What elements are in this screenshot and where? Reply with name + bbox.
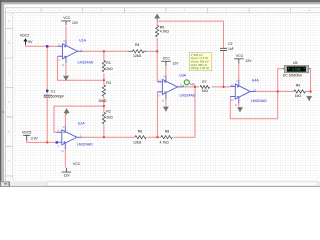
svg-text:2kΩ: 2kΩ <box>106 67 113 71</box>
ground arrow below U4A <box>237 107 243 112</box>
resistor R4 <box>128 43 147 58</box>
svg-text:12V: 12V <box>64 174 71 178</box>
wire VDC5 to U2A lower input <box>27 140 57 142</box>
svg-text:5V: 5V <box>28 40 33 44</box>
svg-text:R1: R1 <box>106 61 111 65</box>
svg-text:U5: U5 <box>293 61 298 65</box>
junction node R6 R8 <box>156 136 158 138</box>
resistor R6 <box>133 129 146 144</box>
resistor R9 <box>294 83 305 98</box>
resistor R5 <box>156 25 170 37</box>
capacitor C2 <box>220 42 234 51</box>
wire U4A output to R9 <box>256 90 311 92</box>
wire meter plus branch <box>278 69 285 92</box>
wire U1A pin4 to VCC <box>65 26 67 40</box>
svg-text:50000pF: 50000pF <box>51 95 64 99</box>
wire R3 leads <box>103 80 105 106</box>
resistor R2 <box>102 110 113 124</box>
svg-text:VDC2: VDC2 <box>20 33 29 37</box>
wire U2A pin4 to arrow <box>64 113 66 126</box>
junction node meter minus <box>310 90 312 92</box>
svg-text:12V: 12V <box>72 21 79 25</box>
op-amp U2A <box>57 122 93 153</box>
ground arrow top of R5 <box>154 14 160 20</box>
svg-text:VCC: VCC <box>73 162 81 166</box>
svg-text:R6: R6 <box>138 129 143 133</box>
svg-text:U4A: U4A <box>252 79 260 83</box>
junction node R2 bottom bus <box>103 136 105 138</box>
wire C2 vertical <box>223 21 225 87</box>
wire C1 bottom down to VDC5 net <box>46 98 48 142</box>
svg-text:V(freq): 1.00 Hz: V(freq): 1.00 Hz <box>191 66 210 70</box>
op-amp U4A <box>230 79 267 107</box>
svg-text:VCC: VCC <box>63 16 71 20</box>
wire VDC2 to U1A noninverting input <box>26 45 58 47</box>
sheet border frame and rulers <box>6 8 320 181</box>
junction node VDC2 blue <box>46 45 48 47</box>
svg-text:U2A: U2A <box>78 122 86 126</box>
wire U4A pin4 to VCC <box>238 63 240 80</box>
power VCC above U3A <box>161 57 179 66</box>
svg-text:12V: 12V <box>173 61 180 65</box>
svg-text:VDC5: VDC5 <box>22 130 31 134</box>
wire U2A output bus to R6 R8 and U3A output node <box>82 136 195 138</box>
wire U2A inverting feedback <box>54 106 104 132</box>
wire U1A output to R4 <box>83 50 128 52</box>
svg-text:2kΩ: 2kΩ <box>106 115 113 119</box>
junction node U3A output <box>194 86 196 88</box>
junction node C1 top blue <box>46 90 48 92</box>
wire U1A inverting feedback <box>57 56 104 80</box>
svg-text:1kΩ: 1kΩ <box>295 94 302 98</box>
wire U4A inverting feedback loop <box>230 91 277 118</box>
svg-text:3.3V: 3.3V <box>31 137 39 141</box>
op-amp U1A <box>58 39 94 67</box>
ground arrow below U1A <box>63 76 69 81</box>
svg-text:U3A: U3A <box>179 74 187 78</box>
svg-text:12kΩ: 12kΩ <box>133 54 142 58</box>
svg-text:4.7kΩ: 4.7kΩ <box>160 141 170 145</box>
resistor R3 <box>98 81 111 103</box>
wire R1 leads <box>103 51 105 80</box>
probe PR1 on U3A output <box>182 80 196 87</box>
multimeter U5 <box>283 61 310 77</box>
bottom scrollbar <box>0 181 320 187</box>
wire U3A pin4 to VCC <box>165 66 167 77</box>
ground arrow right of R9 <box>306 96 312 101</box>
wire R5 vertical chain and top bus to C2 <box>157 20 223 52</box>
junction node C2 bottom <box>223 86 225 88</box>
junction node U2A input blue <box>56 141 58 143</box>
wire U3A inverting down to bus <box>156 91 158 137</box>
junction node R1 R3 feedback <box>103 79 105 81</box>
grid dots <box>6 9 320 182</box>
junction node R3 R2 <box>103 105 105 107</box>
wire U1A pin11 to ground arrow <box>65 63 67 75</box>
wire U4A pin11 to ground arrow <box>238 103 240 107</box>
junction node R4 R5 <box>156 50 158 52</box>
svg-text:1uF: 1uF <box>228 47 234 51</box>
svg-text:12kΩ: 12kΩ <box>133 141 142 145</box>
resistor R8 <box>160 129 173 144</box>
wire meter minus branch <box>309 69 311 92</box>
wire U3A output node feedback down <box>194 87 196 137</box>
svg-text:LM324AD: LM324AD <box>251 99 267 103</box>
svg-text:LM324AD: LM324AD <box>180 93 196 97</box>
power VCC above U4A <box>234 54 252 63</box>
op-amp U3A <box>157 74 195 103</box>
ground arrow up at U2A pin4 <box>64 108 70 114</box>
capacitor C1 <box>44 90 64 99</box>
svg-text:1kΩ: 1kΩ <box>202 89 209 93</box>
svg-text:VCC: VCC <box>163 57 171 61</box>
power VCC above U1A <box>61 16 79 25</box>
power VCC below U2A inverted <box>62 162 81 177</box>
svg-text:R4: R4 <box>135 43 140 47</box>
wire U2A pin11 to VCC below <box>64 149 66 168</box>
ground arrow below U3A <box>163 106 169 111</box>
svg-text:U1A: U1A <box>79 39 87 43</box>
svg-text:LM324AD: LM324AD <box>78 61 94 65</box>
wire node down to C1 <box>46 46 48 94</box>
svg-text:R3: R3 <box>106 81 111 85</box>
wire R2 leads <box>103 106 105 137</box>
svg-text:PR1: PR1 <box>190 83 196 87</box>
wire R4 to R5 node <box>148 50 157 52</box>
junction node U4A output <box>277 90 279 92</box>
junction node VDC5 C1 <box>46 141 48 143</box>
wire node to U3A noninverting input <box>156 51 158 81</box>
junction node R1 top <box>103 50 105 52</box>
svg-text:4.7kΩ: 4.7kΩ <box>160 30 170 34</box>
resistor R1 <box>102 61 113 72</box>
wire U3A pin11 to ground arrow <box>165 98 167 106</box>
svg-text:R2: R2 <box>106 110 111 114</box>
svg-text:R9: R9 <box>296 83 301 87</box>
svg-text:0.935: 0.935 <box>292 68 300 72</box>
source VDC2 <box>20 33 33 44</box>
svg-text:10kΩ: 10kΩ <box>98 99 107 103</box>
resistor R7 <box>200 80 210 93</box>
svg-text:C2: C2 <box>228 42 233 46</box>
window chrome background <box>0 0 320 187</box>
svg-text:R7: R7 <box>202 80 207 84</box>
source VDC5 <box>22 130 39 140</box>
svg-text:DC 10MOhm: DC 10MOhm <box>283 74 302 78</box>
svg-text:VCC: VCC <box>236 54 244 58</box>
svg-text:C1: C1 <box>51 90 56 94</box>
wire U3A output through R7 to U4A <box>183 86 231 88</box>
probe readout yellow box <box>189 53 212 71</box>
svg-text:12V: 12V <box>246 59 253 63</box>
wire R9 right to ground <box>310 91 312 93</box>
svg-text:LM324AD: LM324AD <box>77 143 93 147</box>
svg-text:R8: R8 <box>165 129 170 133</box>
